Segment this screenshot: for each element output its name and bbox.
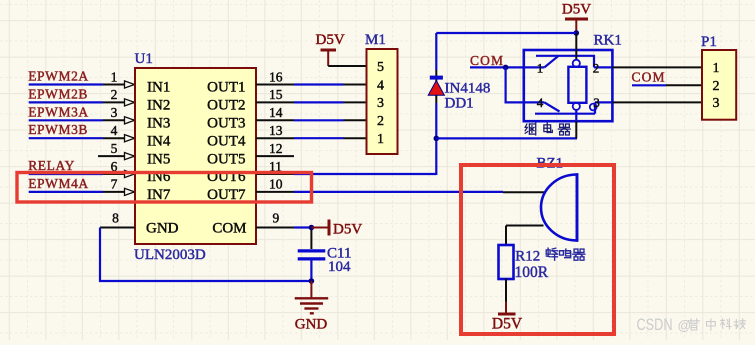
svg-text:16: 16: [269, 69, 283, 84]
connector P1 body: [702, 50, 736, 120]
svg-text:OUT2: OUT2: [207, 98, 245, 114]
svg-text:3: 3: [713, 96, 720, 111]
wire U1 pin9 COM node: [256, 227, 294, 229]
svg-text:EPWM2A: EPWM2A: [28, 69, 89, 84]
svg-text:GND: GND: [295, 317, 328, 333]
svg-text:IN4148: IN4148: [445, 81, 491, 97]
wire net label EPWM2B to U1 pin 2: [29, 101, 103, 103]
resistor R12: [499, 245, 514, 279]
svg-text:R12: R12: [515, 248, 540, 264]
svg-text:EPWM2B: EPWM2B: [28, 86, 88, 101]
node COM branch junction: [503, 65, 509, 71]
value label 继电器 (relay): [525, 123, 536, 135]
svg-text:1: 1: [713, 61, 720, 76]
svg-text:4: 4: [537, 95, 544, 110]
wire relay pin3 to P1 pin3: [612, 101, 702, 103]
U1 pin 12 stub: [256, 155, 294, 157]
svg-text:COM: COM: [212, 221, 246, 237]
buzzer BZ1 body: [541, 175, 577, 241]
svg-text:EPWM3A: EPWM3A: [28, 104, 89, 119]
svg-text:7: 7: [111, 177, 118, 192]
U1 pin 16 stub: [256, 84, 294, 86]
wire COM branch to relay pin4: [506, 67, 545, 102]
svg-text:1: 1: [377, 132, 384, 147]
svg-text:D5V: D5V: [562, 2, 591, 18]
svg-text:104: 104: [328, 259, 351, 275]
svg-text:D5V: D5V: [492, 316, 523, 333]
svg-text:EPWM3B: EPWM3B: [28, 122, 88, 137]
IC U1 ULN2003D body: [135, 68, 256, 244]
svg-text:2: 2: [593, 61, 600, 76]
svg-text:4: 4: [111, 123, 118, 138]
svg-text:5: 5: [111, 141, 118, 156]
svg-text:3: 3: [377, 96, 384, 111]
svg-text:10: 10: [269, 177, 283, 192]
svg-text:IN1: IN1: [147, 80, 170, 96]
connector M1 body: [367, 49, 398, 154]
svg-text:OUT3: OUT3: [207, 116, 245, 132]
svg-text:100R: 100R: [515, 264, 549, 281]
annotation red box (EPWM4A row): [17, 173, 312, 203]
wire U1 pin8 GND run: [100, 227, 135, 229]
svg-text:IN5: IN5: [147, 151, 170, 167]
node coil/D5V junction: [574, 30, 580, 36]
U1 pin 15 stub: [256, 101, 294, 103]
svg-text:RELAY: RELAY: [28, 158, 75, 173]
relay contact bottom (pin4-pin3): [544, 102, 559, 111]
svg-text:GND: GND: [146, 221, 179, 237]
svg-text:4: 4: [377, 78, 384, 93]
U1 pin 13 stub: [256, 137, 294, 139]
wire D5V to M1 pin 5: [328, 65, 366, 67]
svg-text:12: 12: [269, 141, 283, 156]
wire D5V to diode branch: [436, 32, 576, 34]
svg-text:9: 9: [273, 211, 280, 226]
svg-text:3: 3: [593, 95, 600, 110]
svg-text:13: 13: [269, 123, 283, 138]
wire OUT4 to M1: [294, 137, 344, 139]
wire net label EPWM3A to U1 pin 3: [29, 119, 103, 121]
wire net label EPWM2A to U1 pin 1: [29, 83, 103, 85]
svg-text:1: 1: [111, 69, 118, 84]
node COM/D5V junction: [309, 225, 315, 231]
diode DD1 IN4148: [435, 70, 437, 103]
wire relay pin2 to P1 pin1: [612, 66, 702, 68]
svg-text:EPWM4A: EPWM4A: [28, 176, 89, 191]
svg-text:2: 2: [713, 79, 720, 94]
svg-text:COM: COM: [470, 53, 504, 68]
svg-text:2: 2: [377, 114, 384, 129]
svg-text:15: 15: [269, 87, 283, 102]
svg-text:CSDN: CSDN: [637, 315, 673, 334]
power symbol D5V (at C11): [311, 227, 327, 229]
wire COM to relay pin1: [470, 66, 544, 68]
svg-text:2: 2: [111, 87, 118, 102]
svg-text:P1: P1: [701, 34, 717, 50]
annotation red box (buzzer area): [461, 165, 614, 334]
wire coil low side: [436, 137, 577, 139]
svg-text:ULN2003D: ULN2003D: [134, 247, 206, 263]
svg-text:RK1: RK1: [594, 33, 622, 49]
node diode/coil/OUT6 junction: [434, 136, 440, 142]
svg-text:COM: COM: [632, 70, 666, 85]
value label 蜂鸣器 (buzzer): [546, 248, 557, 260]
wire OUT7 to buzzer BZ1: [294, 191, 503, 193]
capacitor C11: [310, 230, 312, 249]
wire COM to P1 pin2: [632, 84, 666, 86]
svg-text:IN3: IN3: [147, 116, 170, 132]
wire net label EPWM3B to U1 pin 4: [29, 137, 103, 139]
svg-text:M1: M1: [365, 32, 386, 48]
svg-text:D5V: D5V: [316, 32, 345, 48]
wire OUT3 to M1: [294, 119, 344, 121]
U1 pin 14 stub: [256, 119, 294, 121]
power symbol D5V (buzzer): [505, 279, 507, 302]
svg-text:OUT4: OUT4: [207, 133, 246, 149]
wire net label RELAY to U1 pin 6: [29, 173, 103, 175]
relay contact top (pin1-pin2): [544, 56, 558, 68]
ground GND: [310, 281, 312, 298]
wire buzzer to R12: [506, 225, 544, 227]
svg-text:D5V: D5V: [333, 222, 362, 238]
U1 pin 11 stub: [256, 173, 294, 175]
relay coil RK1: [575, 33, 577, 60]
U1 pin 10 stub: [256, 191, 294, 193]
svg-text:U1: U1: [135, 51, 153, 67]
node GND junction: [309, 278, 315, 284]
svg-text:IN4: IN4: [147, 133, 171, 149]
svg-text:@: @: [678, 318, 692, 333]
wire net label EPWM4A to U1 pin 7: [29, 191, 103, 193]
svg-text:8: 8: [112, 211, 119, 226]
wire stub to U1 pin 5: [98, 155, 134, 157]
svg-text:DD1: DD1: [445, 96, 474, 112]
svg-text:5: 5: [377, 60, 384, 75]
svg-text:IN2: IN2: [147, 98, 170, 114]
svg-text:1: 1: [537, 61, 544, 76]
wire OUT1 to M1: [294, 83, 344, 85]
wire OUT2 to M1: [294, 101, 344, 103]
svg-text:3: 3: [111, 105, 118, 120]
svg-text:14: 14: [269, 105, 283, 120]
wire OUT6 to coil node: [294, 173, 436, 175]
svg-text:OUT1: OUT1: [207, 80, 245, 96]
svg-text:OUT5: OUT5: [207, 151, 245, 167]
relay RK1 outline box: [524, 50, 613, 121]
